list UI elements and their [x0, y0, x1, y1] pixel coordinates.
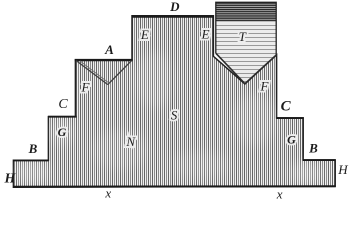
svg-text:H: H — [337, 162, 348, 177]
svg-text:S: S — [171, 108, 178, 123]
step C left thick top line — [48, 116, 77, 118]
wall body (stepped cross-section, vertical hatching) — [13, 16, 335, 187]
svg-text:x: x — [104, 185, 111, 200]
svg-text:B: B — [308, 140, 318, 155]
tower top thick coping line — [132, 15, 214, 17]
svg-text:E: E — [140, 27, 149, 42]
centre joint line of wall — [171, 17, 173, 186]
inner joint line of step A wedge — [80, 61, 109, 83]
svg-text:G: G — [287, 132, 296, 146]
light texture patches on wall — [15, 52, 322, 185]
step B right thick top line — [303, 159, 336, 161]
svg-text:F: F — [81, 79, 91, 94]
svg-text:T: T — [239, 29, 247, 44]
svg-text:G: G — [58, 125, 67, 139]
bottom base line — [13, 185, 336, 188]
T cap block: light horizontal-hatched body with V bottom — [216, 22, 276, 84]
svg-text:D: D — [169, 0, 180, 14]
svg-text:N: N — [125, 134, 136, 149]
svg-text:C: C — [58, 97, 68, 112]
svg-text:B: B — [28, 141, 38, 156]
T cap V joint strokes — [216, 53, 245, 83]
step B left thick top line — [13, 159, 49, 161]
T cap outline — [216, 2, 276, 55]
svg-text:H: H — [4, 171, 17, 186]
svg-text:E: E — [201, 27, 210, 42]
step A thick top line — [75, 59, 133, 61]
V joggle joint lines in step A — [76, 61, 108, 85]
T cap block: dense horizontal-hatched top band — [216, 2, 276, 21]
svg-text:x: x — [276, 187, 283, 201]
svg-text:A: A — [104, 42, 114, 57]
svg-text:F: F — [260, 79, 270, 94]
step C right thick top line — [276, 117, 303, 119]
svg-text:C: C — [281, 98, 292, 114]
